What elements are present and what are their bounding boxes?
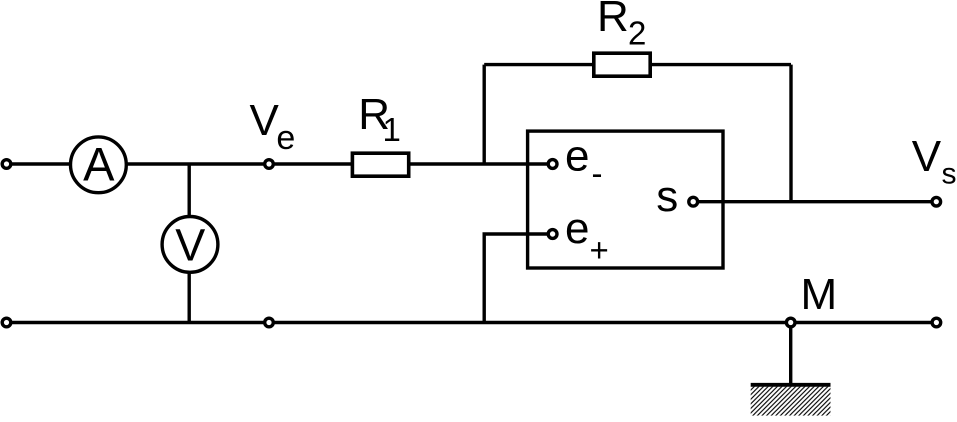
label Vs: [912, 132, 957, 191]
terminal Vs: [932, 197, 941, 206]
voltmeter V: [162, 217, 218, 273]
pin e+: [548, 230, 557, 239]
terminal bottom right: [932, 318, 941, 327]
terminal input bottom: [2, 318, 11, 327]
wire voltmeter branch: [187, 164, 190, 323]
svg-text:+: +: [590, 232, 609, 269]
node below Ve: [265, 318, 274, 327]
pin e-: [548, 160, 557, 169]
ammeter A: [71, 137, 127, 193]
svg-text:1: 1: [383, 111, 401, 148]
svg-text:V: V: [912, 132, 942, 181]
label e+: [565, 204, 609, 269]
svg-text:A: A: [83, 138, 115, 191]
label R2: [597, 0, 646, 51]
node Ve: [265, 160, 274, 169]
label e-: [565, 132, 603, 192]
wire R2 top rail: [484, 63, 791, 66]
wire top rail: [7, 162, 549, 165]
wire bottom rail: [7, 321, 937, 324]
pin s: [689, 197, 698, 206]
svg-text:e: e: [565, 204, 589, 253]
svg-text:V: V: [175, 220, 205, 271]
resistor R2: [594, 53, 650, 76]
wire e+ stub: [484, 234, 548, 323]
label R1: [358, 90, 401, 148]
label Ve: [250, 96, 296, 157]
svg-text:2: 2: [628, 14, 646, 51]
op-amp U1 box: [528, 131, 723, 268]
wire output s to Vs: [697, 200, 936, 203]
wire ground stub: [789, 323, 792, 385]
svg-text:-: -: [592, 155, 603, 192]
ground hatch: [751, 387, 831, 416]
svg-text:e: e: [565, 132, 589, 181]
svg-text:R: R: [597, 0, 629, 41]
resistor R1: [352, 153, 408, 176]
terminal input top: [2, 160, 11, 169]
svg-text:s: s: [656, 172, 678, 221]
wire feedback vertical left: [483, 65, 486, 164]
wire feedback vertical right: [789, 65, 792, 202]
ground bar: [751, 383, 831, 387]
svg-text:V: V: [250, 96, 280, 145]
svg-text:e: e: [276, 119, 295, 157]
node M: [786, 318, 795, 327]
svg-text:M: M: [801, 270, 838, 319]
svg-text:s: s: [942, 158, 957, 191]
